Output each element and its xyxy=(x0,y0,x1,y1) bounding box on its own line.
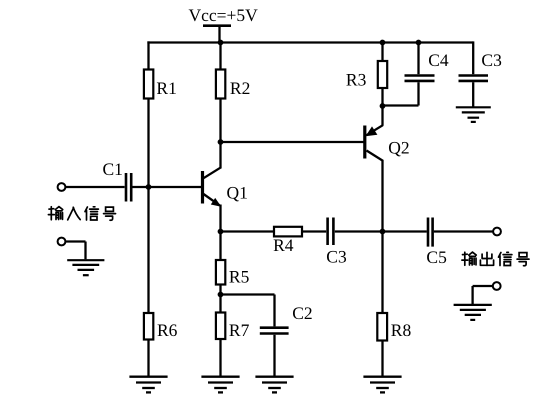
input terminal xyxy=(58,183,66,191)
wire left column xyxy=(147,41,149,376)
wire middle row emitter to R4 xyxy=(221,230,275,232)
resistor R8 xyxy=(377,313,411,341)
resistor R2 xyxy=(216,70,250,99)
char 号 xyxy=(517,253,529,266)
label output signal (输出信号) xyxy=(462,252,529,266)
svg-text:R5: R5 xyxy=(229,267,250,287)
wire Vcc stub xyxy=(218,26,220,43)
wire C5 to output xyxy=(434,230,493,232)
char 信 xyxy=(499,252,512,265)
svg-text:Vcc=+5V: Vcc=+5V xyxy=(189,5,259,25)
char 出 xyxy=(480,252,493,265)
char 输 xyxy=(48,207,62,220)
svg-text:R4: R4 xyxy=(273,235,294,255)
ground under R7 xyxy=(201,377,239,393)
node output junction xyxy=(380,229,386,235)
svg-text:Q1: Q1 xyxy=(227,182,248,202)
resistor R1 xyxy=(144,70,177,99)
ground under R8 xyxy=(363,377,401,393)
resistor R3 xyxy=(346,41,387,106)
svg-text:C4: C4 xyxy=(428,50,449,70)
wire input row right of C1 xyxy=(132,186,202,188)
resistor R6 xyxy=(144,313,178,340)
wire input row left of C1 xyxy=(65,186,124,188)
wire R5 node to C2 xyxy=(221,295,275,327)
svg-text:C2: C2 xyxy=(292,303,312,323)
svg-text:R6: R6 xyxy=(157,320,178,340)
wire Q2 base row xyxy=(221,141,365,143)
char 输 xyxy=(462,252,476,265)
ground output xyxy=(454,305,492,320)
wire input ground stub xyxy=(65,242,85,260)
char 入 xyxy=(68,207,81,220)
node Q1 emitter junction xyxy=(218,229,224,235)
node R5/R7 junction xyxy=(218,292,224,298)
wire R4 to C3 xyxy=(302,230,326,232)
wire C3 to C5 xyxy=(335,230,427,232)
capacitor C4 xyxy=(383,41,449,105)
node C4 top xyxy=(416,40,422,46)
svg-text:R3: R3 xyxy=(346,70,367,90)
label input signal (输入信号) xyxy=(48,207,115,221)
input signal terminal 2 xyxy=(58,238,66,246)
node Q1 collector / R2 junction xyxy=(218,139,224,145)
svg-text:R7: R7 xyxy=(229,320,250,340)
svg-text:R1: R1 xyxy=(156,78,176,98)
node Vcc junction xyxy=(218,40,224,46)
svg-text:C3: C3 xyxy=(326,247,347,267)
wire output ground stub xyxy=(473,286,493,304)
transistor Q1 xyxy=(203,142,248,232)
wire C2 to ground xyxy=(273,335,275,377)
transistor Q2 xyxy=(365,106,410,377)
ground under C2 xyxy=(255,377,293,393)
capacitor C1 xyxy=(103,159,132,202)
ground input xyxy=(67,260,104,275)
capacitor C3 (top right) xyxy=(459,41,503,106)
capacitor C5 xyxy=(426,218,447,268)
wire top rail xyxy=(147,41,473,43)
ground under R6 xyxy=(129,377,167,393)
char 号 xyxy=(104,207,116,220)
wire main column x=220.5 top xyxy=(219,41,221,142)
node input junction xyxy=(146,184,152,190)
svg-text:C1: C1 xyxy=(103,159,123,179)
capacitor C2 xyxy=(260,303,313,334)
svg-text:C3: C3 xyxy=(481,50,502,70)
wire main column x=220.5 bottom xyxy=(219,232,221,377)
char 信 xyxy=(85,207,98,220)
resistor R5 xyxy=(216,260,250,287)
Vcc power bar xyxy=(203,24,231,27)
capacitor C3 (middle) xyxy=(326,218,347,267)
svg-text:Q2: Q2 xyxy=(388,137,409,157)
svg-text:C5: C5 xyxy=(426,247,447,267)
node R3 top xyxy=(380,40,386,46)
ground under C3 top right xyxy=(456,107,491,122)
resistor R7 xyxy=(216,313,250,341)
node Q2 emitter junction xyxy=(380,103,386,109)
resistor R4 xyxy=(273,227,302,255)
svg-text:R2: R2 xyxy=(230,78,250,98)
svg-text:R8: R8 xyxy=(391,320,412,340)
output terminal 2 xyxy=(493,282,501,290)
output terminal xyxy=(493,228,501,236)
